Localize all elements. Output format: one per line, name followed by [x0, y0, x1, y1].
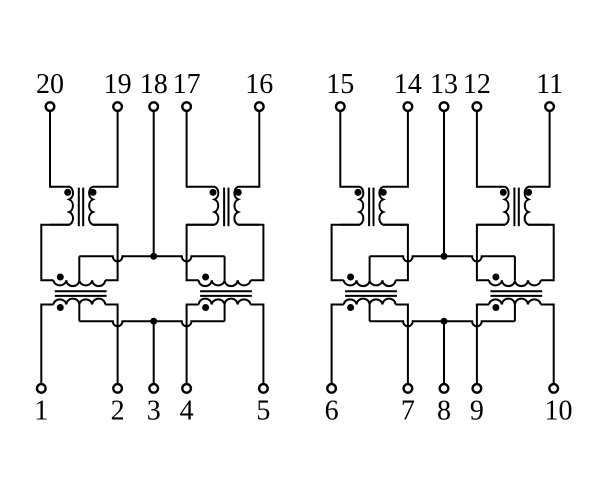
common-mode choke CM3 winding 2 — [379, 187, 408, 225]
svg-text:12: 12 — [463, 69, 491, 100]
wire T1 secondary right to pin 2 — [105, 305, 117, 384]
transformer T2 secondary dot — [202, 304, 209, 311]
common-mode choke CM1 dot winding 1 — [64, 189, 71, 196]
pin 1 terminal — [37, 384, 46, 393]
wire pin 17 lead — [186, 112, 188, 188]
wire T4 primary centre tap riser — [514, 256, 516, 280]
common-mode choke CM4 winding 1 — [477, 187, 509, 225]
common-mode choke CM1 dot winding 2 — [90, 189, 97, 196]
common-mode choke CM4 winding 2 — [525, 187, 550, 225]
transformer T3 primary dot — [347, 274, 354, 281]
wire T1 primary centre tap riser — [78, 256, 80, 280]
wire T3 secondary left to pin 6 — [332, 305, 344, 384]
wire CM2 winding1 to T2 primary left — [187, 225, 215, 281]
transformer T3 secondary dot — [347, 304, 354, 311]
wire CM1 winding1 to T1 primary left — [41, 225, 69, 281]
wire CM1 winding2 to T1 primary right — [93, 225, 118, 281]
svg-text:9: 9 — [470, 395, 484, 426]
junction pin 13 on primary tap bus — [441, 253, 448, 260]
svg-text:3: 3 — [147, 395, 161, 426]
wire T4 secondary left to pin 9 — [477, 305, 489, 384]
transformer T4 primary dot — [492, 274, 499, 281]
wire pin 14 lead — [407, 112, 409, 188]
transformer T2 primary winding — [199, 280, 251, 286]
wire secondary centre-tap bus (pin 8) — [370, 321, 515, 326]
junction pin 8 on secondary tap bus — [441, 318, 448, 325]
svg-text:10: 10 — [545, 395, 573, 426]
transformer T2 core — [200, 290, 252, 292]
wire T3 secondary centre tap riser — [369, 305, 371, 322]
transformer T1 primary dot — [57, 274, 64, 281]
common-mode choke CM1 winding 1 — [50, 187, 73, 225]
common-mode choke CM3 winding 1 — [340, 187, 363, 225]
svg-text:17: 17 — [173, 69, 201, 100]
wire primary centre-tap bus (pin 13) — [370, 256, 515, 261]
wire pin 19 lead — [117, 112, 119, 188]
common-mode choke CM3 dot winding 2 — [380, 189, 387, 196]
junction pin 3 on secondary tap bus — [150, 318, 157, 325]
transformer T1 secondary dot — [57, 304, 64, 311]
wire T3 primary centre tap riser — [369, 256, 371, 280]
pin 13 terminal — [440, 102, 449, 111]
junction pin 18 on primary tap bus — [150, 253, 157, 260]
wire pin 20 lead — [49, 112, 51, 188]
transformer T3 secondary winding — [344, 299, 396, 305]
wire pin 11 lead — [549, 112, 551, 188]
svg-text:5: 5 — [256, 395, 270, 426]
wire T4 secondary right to pin 10 — [541, 305, 554, 384]
transformer T4 core — [490, 290, 542, 292]
pin 15 terminal — [336, 102, 345, 111]
svg-text:16: 16 — [245, 69, 273, 100]
pin 19 terminal — [113, 102, 122, 111]
wire secondary centre-tap bus (pin 3) — [79, 321, 224, 326]
pin 4 terminal — [182, 384, 191, 393]
common-mode choke CM1 core — [78, 188, 80, 227]
common-mode choke CM4 core — [513, 188, 515, 227]
wire CM4 winding1 to T4 primary left — [477, 225, 505, 281]
wire T2 secondary right to pin 5 — [251, 305, 264, 384]
wire pin 13 lead to centre-tap bus — [443, 112, 445, 257]
wire T3 secondary right to pin 7 — [396, 305, 408, 384]
svg-text:13: 13 — [430, 69, 458, 100]
pin 6 terminal — [327, 384, 336, 393]
wire pin 12 lead — [476, 112, 478, 188]
transformer T4 secondary dot — [492, 304, 499, 311]
svg-text:19: 19 — [104, 69, 132, 100]
common-mode choke CM1 winding 2 — [89, 187, 118, 225]
wire CM2 winding2 to T2 primary right — [238, 225, 263, 281]
transformer T4 primary winding — [489, 280, 541, 286]
svg-text:15: 15 — [326, 69, 354, 100]
wire T1 secondary left to pin 1 — [41, 305, 53, 384]
pin 14 terminal — [404, 102, 413, 111]
svg-text:14: 14 — [394, 69, 422, 100]
wire pin 15 lead — [339, 112, 341, 188]
common-mode choke CM4 dot winding 2 — [525, 189, 532, 196]
wire T2 primary centre tap riser — [224, 256, 226, 280]
pin 2 terminal — [113, 384, 122, 393]
common-mode choke CM3 core — [368, 188, 370, 227]
transformer T3 primary winding — [344, 280, 396, 286]
common-mode choke CM4 dot winding 1 — [500, 189, 507, 196]
svg-text:20: 20 — [36, 69, 64, 100]
common-mode choke CM2 winding 2 — [234, 187, 259, 225]
svg-text:18: 18 — [140, 69, 168, 100]
svg-text:8: 8 — [437, 395, 451, 426]
wire pin 3 lead from secondary tap bus — [153, 321, 155, 384]
transformer T2 primary dot — [202, 274, 209, 281]
wire CM3 winding1 to T3 primary left — [332, 225, 360, 281]
pin 17 terminal — [182, 102, 191, 111]
common-mode choke CM2 dot winding 2 — [235, 189, 242, 196]
wire pin 8 lead from secondary tap bus — [443, 321, 445, 384]
wire T1 secondary centre tap riser — [78, 305, 80, 322]
transformer T4 secondary winding — [489, 299, 541, 305]
pin 12 terminal — [473, 102, 482, 111]
common-mode choke CM2 core — [223, 188, 225, 227]
svg-text:1: 1 — [34, 395, 48, 426]
pin 3 terminal — [149, 384, 158, 393]
pin 16 terminal — [255, 102, 264, 111]
pin 7 terminal — [404, 384, 413, 393]
svg-text:4: 4 — [180, 395, 194, 426]
wire pin 18 lead to centre-tap bus — [153, 112, 155, 257]
pin 20 terminal — [46, 102, 55, 111]
pin 10 terminal — [549, 384, 558, 393]
pin 5 terminal — [259, 384, 268, 393]
transformer T2 secondary winding — [199, 299, 251, 305]
pin 18 terminal — [149, 102, 158, 111]
wire CM3 winding2 to T3 primary right — [383, 225, 408, 281]
svg-text:7: 7 — [401, 395, 415, 426]
wire T2 secondary left to pin 4 — [187, 305, 199, 384]
svg-text:6: 6 — [325, 395, 339, 426]
transformer T1 core — [55, 290, 107, 292]
wire T2 secondary centre tap riser — [224, 305, 226, 322]
transformer T1 secondary winding — [53, 299, 105, 305]
transformer T3 core — [345, 290, 397, 292]
svg-text:11: 11 — [536, 69, 563, 100]
pin 8 terminal — [440, 384, 449, 393]
transformer T1 primary winding — [53, 280, 105, 286]
wire T4 secondary centre tap riser — [514, 305, 516, 322]
wire primary centre-tap bus (pin 18) — [79, 256, 224, 261]
svg-text:2: 2 — [111, 395, 125, 426]
pin 11 terminal — [545, 102, 554, 111]
common-mode choke CM2 winding 1 — [187, 187, 219, 225]
common-mode choke CM3 dot winding 1 — [355, 189, 362, 196]
pin 9 terminal — [473, 384, 482, 393]
wire CM4 winding2 to T4 primary right — [529, 225, 554, 281]
wire pin 16 lead — [258, 112, 260, 188]
common-mode choke CM2 dot winding 1 — [210, 189, 217, 196]
